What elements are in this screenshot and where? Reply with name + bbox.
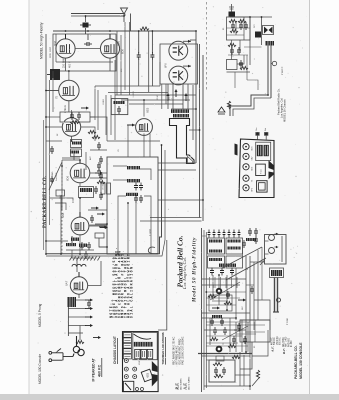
ps extra h2 [227, 34, 245, 36]
wire osc cluster [66, 249, 94, 251]
s2 output frame [265, 235, 287, 265]
wire s2 v3 [226, 275, 228, 310]
s2 coil 4 [228, 247, 241, 250]
tube V3 6F6 output [169, 40, 191, 60]
s2 top cap 1 [208, 230, 211, 238]
wire s2 v5 [245, 256, 247, 352]
s2 coil low [212, 315, 222, 318]
svg-text:IF 460: IF 460 [291, 340, 293, 347]
socket circle bottom layout [133, 367, 137, 371]
s2 top cap 5 [228, 230, 231, 238]
wire if drop 2 [127, 203, 129, 254]
dashed AVC line [61, 166, 63, 254]
wire v10 right up [88, 261, 101, 286]
tube can box 2 [141, 349, 146, 358]
cap v7 a [94, 186, 98, 194]
svg-text:50 M: 50 M [157, 95, 159, 100]
speaker bowtie chassis right upper [269, 160, 274, 170]
wire v6 down [71, 136, 73, 141]
osc cap a [80, 242, 84, 250]
resistor arrow rung 4 [85, 324, 93, 327]
wire s2 v4 [235, 268, 237, 320]
IF cap 1a [134, 183, 138, 191]
wire left bus x43.5 [43, 120, 45, 250]
wire bus x193 [192, 85, 194, 140]
s2 IF box 1 [208, 238, 225, 254]
tube V4 6F6 output [169, 65, 191, 85]
s2 v x242 [241, 320, 243, 352]
wire if internal 1 [113, 165, 127, 167]
wire v7 right [90, 177, 107, 179]
wire if internal 3 [113, 179, 127, 181]
pot long arrow V8 [100, 226, 108, 229]
s2 top cap 7 [238, 230, 241, 238]
arrow candohm 1 [167, 93, 170, 101]
s2 cap m7 [214, 367, 218, 375]
s2 dens v4 [231, 277, 233, 288]
underline chassis layout [117, 338, 119, 364]
s2 wire right link [260, 260, 265, 265]
osc coil below V8 a [71, 238, 79, 241]
wire mesh u [61, 160, 63, 210]
wire mesh w [124, 14, 126, 17]
left small box 1 [123, 333, 131, 338]
ps step2 [247, 80, 258, 90]
tube socket 6D6 chassis right [243, 164, 249, 170]
wire cross 1 [90, 149, 107, 151]
svg-text:6D6: 6D6 [53, 40, 57, 46]
s2 diag low [222, 326, 248, 340]
left small box 4 [123, 349, 131, 354]
svg-text:460 KC: 460 KC [98, 364, 102, 377]
tiny sockets bottom [136, 388, 144, 391]
wire mesh t [62, 159, 80, 161]
wire x158-x196 y163 [158, 162, 196, 164]
wire v x148.7 [148, 31, 150, 92]
socket circle bottom layout [124, 359, 128, 363]
res bottomleft heavy [76, 340, 84, 343]
s2 output tube b [269, 246, 279, 254]
svg-text:Osc: Osc [256, 127, 258, 131]
s2 res 3 [213, 362, 222, 365]
s2 cap m4 [226, 291, 230, 299]
cap near left bus [50, 146, 54, 154]
s2 socket blob 2 [216, 346, 223, 353]
s2 coil 5 [209, 258, 222, 261]
svg-text:ADJ 2 GANG: ADJ 2 GANG [188, 376, 191, 389]
wire ps x261 [261, 17, 263, 45]
ps cap 2 [239, 22, 243, 30]
wire s2 h1 [202, 278, 246, 280]
wire v x161.8 [161, 84, 163, 109]
wire speaker lead 1 [267, 46, 269, 96]
wire v x121 [120, 35, 122, 95]
wire v5 top [68, 71, 70, 80]
tube V10 6A7 osc [70, 277, 87, 294]
wire mesh p [127, 125, 129, 157]
wire left bus x49.5 [49, 80, 51, 225]
wire mesh n [79, 234, 81, 254]
wire osc v [76, 258, 78, 272]
wire mesh d [94, 86, 96, 120]
scan speckle [31, 2, 308, 390]
s2 long h 369 [202, 355, 250, 357]
s2 dens h6 [206, 342, 238, 344]
wire curl loop [148, 247, 158, 254]
svg-text:MODEL 50 Chassis: MODEL 50 Chassis [283, 99, 287, 122]
tube socket 6A7 chassis right [243, 153, 249, 159]
s2 box link [240, 320, 270, 330]
osc coil box dark [68, 297, 77, 307]
wire v1 plate to v2 grid [75, 48, 100, 50]
wire s2 bus b [205, 232, 207, 388]
IF can leads [256, 132, 268, 140]
s2 cap q3 [250, 286, 254, 294]
IF coil 3 [126, 193, 138, 196]
wire mid h y241 [46, 240, 68, 242]
cathode coil L2 [70, 151, 79, 154]
s2 top cap 3 [218, 230, 221, 238]
s2 dens pot2 [234, 329, 242, 332]
left small box 3 [123, 343, 131, 348]
svg-text:AVC: AVC [89, 155, 92, 160]
ground hatch under bus [70, 257, 101, 261]
wire s2 v2 [218, 275, 220, 305]
wire mesh m [79, 198, 81, 212]
wire ladder bus [67, 297, 69, 336]
bypass cap C2 [137, 52, 141, 60]
ps h y47 [244, 46, 262, 48]
wire mesh s [158, 199, 203, 201]
speaker output T bracket [170, 119, 195, 164]
cap rail b [99, 172, 103, 180]
svg-text:A.F.: A.F. [183, 383, 188, 391]
speaker bowtie bottom layout lower [152, 374, 158, 387]
input cap left b [97, 168, 101, 176]
AF coupling box [60, 112, 90, 122]
wire funnel h1 [115, 94, 196, 96]
IF coil 2 [127, 179, 140, 182]
IF can 2 dark [264, 145, 269, 156]
ps v x235 [234, 72, 236, 88]
s2 dens res1 [210, 337, 218, 340]
page right edge line [309, 0, 311, 400]
s2 cap t1 [242, 240, 246, 248]
wire left bus x46 [45, 34, 47, 254]
svg-text:600 KC: 600 KC [280, 337, 282, 345]
wire bus x203 [202, 55, 204, 221]
wire section boundary [158, 240, 167, 330]
wire v5 cathode [68, 101, 70, 112]
IF transformer box [107, 157, 158, 254]
s2 heavy lead 1 [274, 278, 276, 313]
wire s2 res diag lead [252, 379, 258, 386]
wire speaker step [230, 95, 268, 116]
wire ladder rung 1 [68, 299, 86, 301]
coil box L1 [71, 140, 82, 148]
ps res y68 [240, 66, 248, 69]
candohm strip upper [171, 110, 189, 113]
s2 wire y375 ext [235, 374, 250, 376]
resistor hum [227, 101, 230, 109]
svg-text:6D6: 6D6 [66, 175, 70, 181]
resistor box avc [95, 233, 104, 238]
svg-text:# conn: # conn [287, 317, 289, 325]
s2 h y334 [236, 333, 256, 335]
speaker bowtie bottom layout upper [152, 361, 158, 372]
resistor arrow rung 1 [85, 299, 93, 302]
svg-text:400 V: 400 V [69, 61, 72, 68]
s2 dens h3 [206, 304, 236, 306]
pilot connector circle [271, 61, 277, 65]
page left edge line [28, 0, 30, 400]
s2 h y322 [206, 321, 250, 323]
wire mesh x [55, 34, 57, 62]
ps extra h1 [227, 27, 251, 29]
s2 cap m6 [220, 318, 224, 326]
wire if internal 5 [144, 196, 151, 203]
s2 res 1 [208, 294, 216, 297]
wire avc down [99, 238, 107, 247]
ps cap 1 [231, 22, 235, 30]
pot v9 arrow [127, 124, 135, 127]
cap y112 b [77, 112, 81, 120]
power supply box [227, 17, 251, 40]
s2 mid box a inner [212, 300, 228, 302]
wire osc cluster2 [72, 250, 94, 258]
svg-text:ANT 1400: ANT 1400 [285, 336, 288, 347]
wire v x125 [124, 22, 126, 90]
osc coil 1 [66, 243, 76, 246]
wire v x166 [165, 84, 167, 104]
svg-text:1 MF: 1 MF [139, 360, 141, 366]
s2 dens v1 [214, 277, 216, 288]
s2 dens cap1 [213, 327, 217, 335]
antenna [121, 8, 128, 22]
s2 IF box 3 [208, 256, 225, 268]
grid cap V7 [79, 160, 81, 163]
svg-text:460 KC: 460 KC [272, 337, 274, 345]
svg-text:6E5: 6E5 [147, 372, 150, 377]
resistor R 41K [107, 183, 111, 194]
s2 dens h7 [206, 359, 209, 361]
coil box v7 [79, 187, 94, 198]
s2 dens h1 [206, 291, 246, 293]
svg-text:540 KC: 540 KC [274, 337, 276, 345]
arrow right of V8 b [97, 213, 105, 216]
wire 6e5 drop [149, 133, 151, 157]
resistor arrow rung 3 [85, 316, 93, 319]
wire s2 h3 [202, 312, 250, 314]
ps cap 3 [230, 47, 234, 55]
s2 IF box 4 [226, 256, 243, 268]
svg-text:Det: Det [264, 127, 267, 131]
field coil dark bar [266, 41, 275, 46]
grid cap V1 [65, 34, 67, 39]
tube V5 6D6 first AF [59, 80, 79, 100]
volume control pot block [47, 69, 60, 80]
wire bus x196 [195, 31, 197, 163]
IF cap 2b [139, 195, 143, 203]
cap v7 b [99, 192, 103, 200]
wire mesh v [159, 62, 161, 86]
s2 coil 3 [228, 240, 241, 243]
s2 dens right h1 [250, 261, 265, 263]
s2 right steps [240, 342, 252, 369]
pot avc arrow [99, 226, 107, 229]
s2 v x248 [247, 322, 249, 352]
speaker bowtie chassis right lower [269, 172, 274, 180]
wire c3 down [151, 59, 153, 86]
input cap left a [97, 162, 101, 170]
wire right drop from bus [130, 14, 132, 32]
cap v6 area [97, 142, 101, 150]
wire s2 bottom h [204, 385, 250, 387]
wire mesh l [46, 116, 60, 118]
candohm strip lower [173, 114, 189, 117]
svg-text:75: 75 [55, 95, 59, 99]
wire bottom bus y256.5 [46, 150, 165, 256]
ps cap 4 [237, 47, 241, 55]
output stage box [160, 44, 198, 84]
ps extra res1 [238, 19, 246, 22]
wire s2 left border [201, 228, 203, 392]
wire below tubes h1 [56, 61, 113, 63]
ps wire down x240 [239, 40, 241, 51]
s2 dens h2 [206, 297, 240, 299]
tube V9 6E5 eye [136, 119, 153, 136]
wire bottom bus y254 [46, 145, 162, 254]
wire above V8 a [50, 198, 73, 203]
svg-text:IF PEAKED AT: IF PEAKED AT [92, 357, 96, 381]
wire mid h y247 [99, 246, 107, 248]
tube V8 6A8 mixer [71, 217, 89, 235]
IF cap 1b [139, 183, 143, 191]
svg-text:MODEL 50 High-Fidelity: MODEL 50 High-Fidelity [40, 22, 44, 59]
s2 output transformer [271, 270, 282, 276]
s2 dens pot1 [238, 299, 246, 302]
wire speaker lead 2 [270, 46, 272, 99]
socket circle bottom layout [124, 375, 128, 379]
s2 cap m1 [210, 268, 214, 276]
wire s2 diag 3 [210, 282, 240, 300]
svg-text:250 MMF: 250 MMF [63, 57, 66, 68]
cap y112 a [70, 112, 74, 120]
wire ps x250 [249, 17, 251, 65]
s2 v x236b [235, 322, 237, 352]
wire s2 h4 [202, 317, 236, 319]
wire mesh j [90, 172, 107, 174]
IF can cap mid [117, 106, 121, 114]
s2 pot 1 [212, 307, 220, 310]
wire tube v2 cathode drop [109, 58, 111, 71]
small res box left [56, 190, 65, 196]
wire drop x138.7 [138, 31, 140, 53]
wire mesh o [71, 110, 73, 118]
wire ladder rung 3 [68, 316, 86, 318]
tube V6 76 det [62, 118, 80, 136]
pot volume arrow [81, 107, 89, 110]
wire h y117 right [90, 116, 95, 118]
wire v9 left lead [128, 124, 136, 126]
s2 res q1 [232, 355, 240, 358]
resistor line filter [140, 27, 149, 30]
dial dark row [134, 342, 153, 347]
svg-text:6E5: 6E5 [146, 107, 150, 113]
s2 output tube a [269, 233, 279, 241]
s2 dens v x258 [257, 250, 259, 320]
svg-text:6F6: 6F6 [164, 63, 168, 68]
wire right of V8 h [89, 225, 107, 227]
s2 res 4 [214, 374, 223, 377]
s2 dens v0 [209, 277, 211, 288]
IF can coil mid [114, 101, 125, 104]
wire c2 down [138, 59, 140, 86]
wire ps inner2 [243, 17, 245, 40]
s2 dens right h2 [254, 300, 270, 320]
tube can box 1 [135, 349, 140, 358]
wire v9 links [143, 100, 145, 117]
tube V1 6D6 RF [56, 39, 75, 58]
ps small box [227, 60, 238, 70]
tube V7 6D6 [70, 163, 90, 183]
s2 top cap 4 [223, 230, 226, 238]
wire if drop 3 [135, 203, 137, 254]
bottom-left inner box [123, 381, 133, 391]
wire v x117 [116, 31, 118, 95]
arrow candohm 2 [175, 89, 178, 97]
wire tubeH coil a [71, 236, 73, 244]
ground symbol ps [218, 107, 225, 114]
svg-text:DIAL CALIBRATION.: DIAL CALIBRATION. [129, 263, 133, 318]
output frame bowtie [264, 27, 273, 34]
wire tube v1 cathode drop [65, 58, 67, 71]
wire between tubes [87, 34, 89, 40]
wire y109 join [171, 108, 196, 110]
s2 res 2 [224, 301, 232, 304]
s2 coil 1 [209, 240, 222, 243]
wire s2 v8 [229, 318, 231, 352]
svg-text:CHASSIS LAYOUT: CHASSIS LAYOUT [113, 336, 117, 364]
wire s2 h2 [202, 284, 240, 286]
wire x80 drop bottomleft [79, 326, 81, 341]
s2 dens cap r1 [248, 228, 252, 236]
svg-text:Model 50 High-Fidelity: Model 50 High-Fidelity [192, 237, 197, 303]
shield box RF section [53, 34, 116, 71]
s2 dens cap3 [232, 336, 236, 344]
chassis layout box right [239, 139, 274, 198]
electrolytic box chassis [257, 181, 268, 192]
s2 cap t2 [254, 236, 258, 244]
coil box L2 [71, 149, 82, 157]
arrow right of V8 a [91, 207, 99, 210]
svg-text:PACKARD-BELL CO.: PACKARD-BELL CO. [294, 345, 298, 379]
wire cross 2 [46, 140, 62, 142]
osc coil below V8 b [79, 244, 87, 247]
s2 coil 2 [209, 250, 222, 253]
wire output plates join [190, 39, 196, 41]
osc cap b [87, 242, 91, 250]
s2 dens coil x248 [246, 238, 256, 241]
arrow heavy hook [93, 336, 101, 339]
wire funnel h2 [121, 99, 190, 101]
oscillator coil loops [73, 336, 84, 357]
s2 wire t1 [242, 246, 244, 256]
wire stage h y158 [62, 157, 80, 159]
ps wire down x231 [231, 40, 233, 60]
wire mesh b [90, 117, 107, 141]
s2 h y346 [206, 345, 248, 347]
